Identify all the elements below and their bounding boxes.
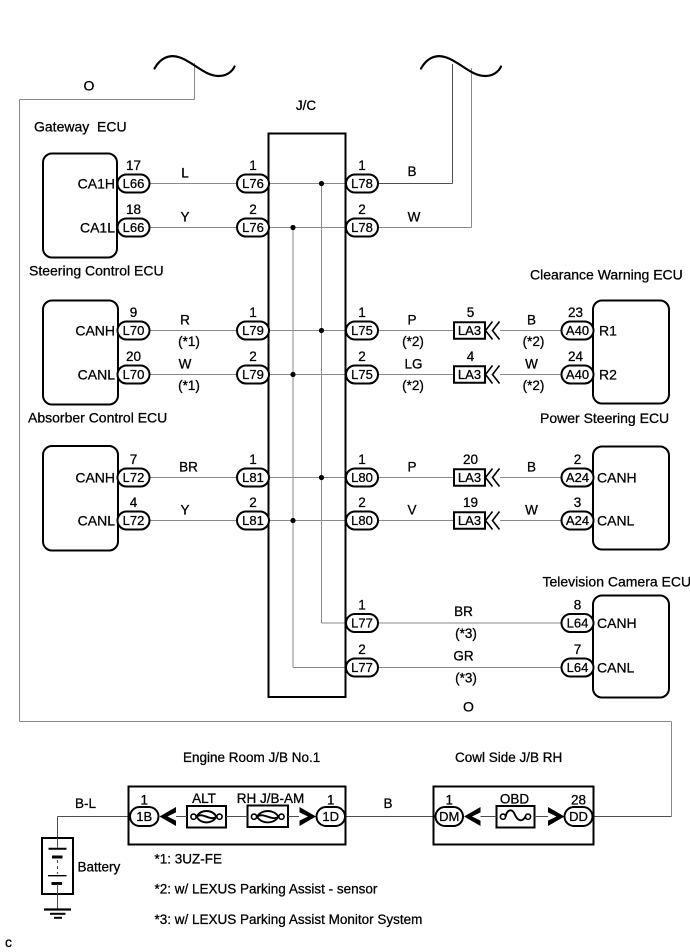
svg-text:2: 2 [358, 202, 366, 217]
svg-text:4: 4 [467, 349, 475, 364]
svg-text:Y: Y [180, 503, 189, 518]
svg-text:LA3: LA3 [458, 470, 481, 485]
svg-text:CA1L: CA1L [80, 220, 115, 236]
svg-text:CANH: CANH [597, 615, 637, 631]
svg-text:*2: w/ LEXUS Parking Assist -: *2: w/ LEXUS Parking Assist - sensor [155, 882, 378, 897]
svg-text:ALT: ALT [192, 791, 216, 806]
svg-text:L78: L78 [351, 176, 373, 191]
svg-text:P: P [407, 460, 416, 475]
svg-text:L77: L77 [351, 616, 373, 631]
svg-text:L72: L72 [123, 513, 145, 528]
svg-text:LA3: LA3 [458, 513, 481, 528]
svg-text:19: 19 [463, 495, 478, 510]
svg-text:L76: L76 [242, 220, 264, 235]
svg-text:LA3: LA3 [458, 367, 481, 382]
svg-text:Television Camera ECU: Television Camera ECU [543, 574, 690, 590]
svg-text:B-L: B-L [75, 796, 97, 811]
svg-text:5: 5 [467, 305, 475, 320]
svg-text:(*3): (*3) [455, 626, 477, 641]
svg-text:*1: 3UZ-FE: *1: 3UZ-FE [155, 852, 223, 867]
svg-text:CANL: CANL [78, 367, 116, 383]
svg-text:Battery: Battery [78, 860, 121, 875]
svg-text:L80: L80 [351, 470, 373, 485]
svg-text:Gateway ECU: Gateway ECU [34, 119, 127, 135]
svg-text:(*2): (*2) [402, 378, 424, 393]
svg-text:R: R [180, 313, 190, 328]
svg-text:L79: L79 [242, 323, 264, 338]
svg-text:A24: A24 [566, 513, 589, 528]
svg-text:Absorber Control ECU: Absorber Control ECU [28, 410, 167, 426]
svg-text:P: P [407, 313, 416, 328]
svg-text:L79: L79 [242, 367, 264, 382]
svg-text:2: 2 [358, 349, 366, 364]
svg-text:1: 1 [358, 158, 366, 173]
svg-text:1: 1 [445, 793, 453, 808]
svg-text:W: W [179, 357, 192, 372]
svg-text:28: 28 [571, 793, 586, 808]
svg-text:B: B [527, 313, 536, 328]
svg-text:18: 18 [126, 202, 141, 217]
svg-text:1: 1 [249, 158, 257, 173]
svg-text:1: 1 [249, 305, 257, 320]
svg-text:L64: L64 [567, 660, 589, 675]
svg-text:Y: Y [180, 210, 189, 225]
svg-text:RH J/B-AM: RH J/B-AM [237, 791, 305, 806]
svg-text:Cowl Side J/B RH: Cowl Side J/B RH [455, 750, 562, 765]
svg-text:2: 2 [358, 495, 366, 510]
svg-text:3: 3 [574, 495, 582, 510]
svg-text:(*1): (*1) [178, 334, 200, 349]
svg-text:(*2): (*2) [523, 334, 545, 349]
svg-text:W: W [525, 503, 538, 518]
svg-text:(*1): (*1) [178, 378, 200, 393]
svg-text:L: L [181, 166, 189, 181]
svg-text:O: O [463, 699, 474, 715]
svg-text:V: V [407, 503, 416, 518]
svg-text:BR: BR [179, 460, 198, 475]
svg-text:L80: L80 [351, 513, 373, 528]
svg-text:B: B [383, 796, 392, 811]
svg-text:L72: L72 [123, 470, 145, 485]
svg-text:CANH: CANH [75, 470, 115, 486]
svg-text:OBD: OBD [500, 792, 530, 807]
svg-text:1: 1 [358, 452, 366, 467]
svg-text:1B: 1B [136, 809, 152, 824]
svg-text:R1: R1 [599, 323, 617, 339]
svg-text:23: 23 [568, 305, 583, 320]
svg-text:(*2): (*2) [523, 378, 545, 393]
svg-text:24: 24 [568, 349, 584, 364]
svg-text:A24: A24 [566, 470, 589, 485]
svg-text:DD: DD [569, 809, 588, 824]
svg-text:L66: L66 [123, 220, 145, 235]
svg-text:BR: BR [454, 604, 473, 619]
svg-text:L81: L81 [242, 470, 264, 485]
svg-text:2: 2 [249, 349, 257, 364]
svg-text:1: 1 [358, 598, 366, 613]
svg-text:L75: L75 [351, 323, 373, 338]
svg-text:17: 17 [126, 158, 141, 173]
svg-text:(*3): (*3) [455, 671, 477, 686]
svg-text:L70: L70 [123, 323, 145, 338]
svg-text:B: B [527, 460, 536, 475]
svg-text:2: 2 [249, 495, 257, 510]
svg-text:L75: L75 [351, 367, 373, 382]
svg-text:CANH: CANH [597, 470, 637, 486]
svg-text:1D: 1D [322, 809, 339, 824]
svg-text:CANH: CANH [75, 323, 115, 339]
svg-text:20: 20 [463, 452, 478, 467]
svg-text:B: B [407, 164, 416, 179]
svg-text:2: 2 [574, 452, 582, 467]
svg-text:DM: DM [439, 809, 459, 824]
svg-text:W: W [408, 210, 421, 225]
svg-text:9: 9 [130, 305, 138, 320]
svg-text:1: 1 [327, 793, 335, 808]
svg-text:1: 1 [249, 452, 257, 467]
svg-text:4: 4 [130, 495, 138, 510]
svg-text:2: 2 [249, 202, 257, 217]
svg-text:Steering Control ECU: Steering Control ECU [29, 263, 164, 279]
svg-text:O: O [84, 78, 95, 94]
svg-text:L78: L78 [351, 220, 373, 235]
svg-text:CANL: CANL [597, 513, 635, 529]
svg-text:2: 2 [358, 642, 366, 657]
svg-text:R2: R2 [599, 367, 617, 383]
svg-text:CANL: CANL [78, 513, 116, 529]
svg-text:L77: L77 [351, 660, 373, 675]
svg-text:L66: L66 [123, 176, 145, 191]
svg-text:CANL: CANL [597, 660, 635, 676]
svg-text:7: 7 [130, 452, 138, 467]
svg-text:L70: L70 [123, 367, 145, 382]
svg-text:Clearance Warning ECU: Clearance Warning ECU [530, 266, 683, 282]
svg-text:L64: L64 [567, 616, 589, 631]
svg-text:LA3: LA3 [458, 323, 481, 338]
svg-text:L76: L76 [242, 176, 264, 191]
svg-text:GR: GR [453, 649, 474, 664]
svg-text:*3: w/ LEXUS Parking Assist Mo: *3: w/ LEXUS Parking Assist Monitor Syst… [155, 912, 423, 927]
svg-text:A40: A40 [566, 367, 589, 382]
svg-text:1: 1 [140, 793, 148, 808]
svg-text:W: W [525, 357, 538, 372]
svg-text:J/C: J/C [296, 98, 317, 113]
svg-text:c: c [5, 934, 12, 950]
svg-text:8: 8 [574, 598, 582, 613]
svg-text:CA1H: CA1H [78, 176, 115, 192]
svg-text:LG: LG [404, 357, 422, 372]
svg-text:Power Steering ECU: Power Steering ECU [540, 410, 669, 426]
svg-text:A40: A40 [566, 323, 589, 338]
svg-text:(*2): (*2) [402, 334, 424, 349]
svg-text:7: 7 [574, 642, 582, 657]
svg-text:Engine Room J/B No.1: Engine Room J/B No.1 [183, 750, 320, 765]
svg-text:20: 20 [126, 349, 141, 364]
svg-text:1: 1 [358, 305, 366, 320]
svg-text:L81: L81 [242, 513, 264, 528]
